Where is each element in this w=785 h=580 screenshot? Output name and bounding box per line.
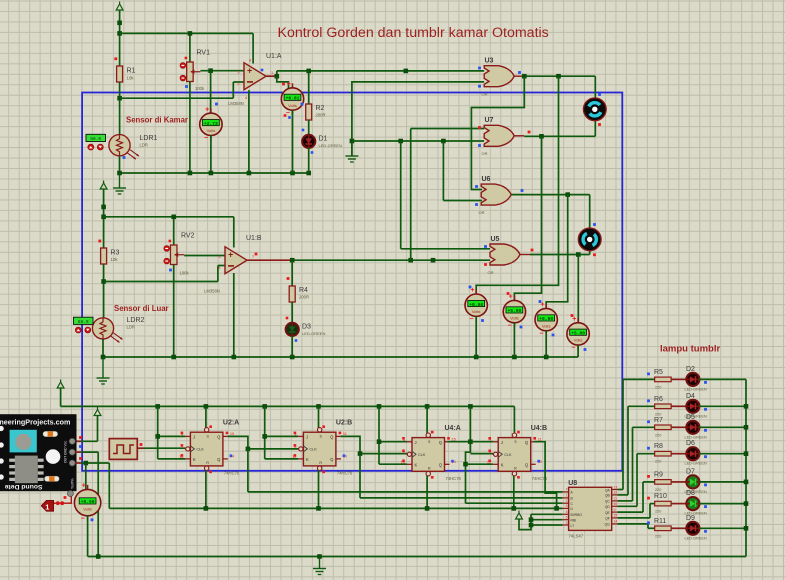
wire VM4 minus to rail <box>513 323 515 357</box>
wire U1:B output up to U7 input <box>410 129 412 261</box>
svg-text:3: 3 <box>566 521 568 525</box>
svg-text:220: 220 <box>655 385 661 389</box>
wire U4:A set pin <box>426 406 428 433</box>
wire R2 to D1 <box>308 120 310 135</box>
wire U3 output down to U6 upper input <box>471 76 524 189</box>
svg-text:4: 4 <box>566 510 568 514</box>
svg-text:LED-GREEN: LED-GREEN <box>685 387 707 391</box>
svg-text:7: 7 <box>252 255 254 259</box>
flip-flop U4:B <box>498 438 531 472</box>
wire RV1 top to rail <box>189 33 191 62</box>
resistor R11 220 <box>655 526 672 531</box>
svg-text:220: 220 <box>655 433 661 437</box>
svg-text:220: 220 <box>655 488 661 492</box>
wire VM2 minus to ground rail <box>292 110 294 173</box>
wire U8 output to R10 <box>618 517 651 519</box>
svg-text:1: 1 <box>45 502 49 511</box>
svg-text:J: J <box>193 435 195 440</box>
wire R9 to D7 <box>671 481 686 483</box>
wire R4 to D3 <box>291 302 293 323</box>
wire test flag to board TestPin (red) <box>54 497 71 504</box>
node U5 output junction <box>576 252 581 257</box>
svg-text:Volts: Volts <box>288 103 297 108</box>
svg-text:D1: D1 <box>319 136 328 143</box>
resistor R6 220 <box>655 404 672 409</box>
svg-text:200R: 200R <box>316 113 326 118</box>
power +V sensor 2 <box>100 183 107 189</box>
wire U5 output to voltmeter VM6 <box>577 255 579 323</box>
svg-text:9: 9 <box>614 508 616 512</box>
svg-text:Volts: Volts <box>510 315 519 320</box>
svg-text:1: 1 <box>271 71 273 75</box>
svg-text:11: 11 <box>538 436 542 441</box>
svg-text:+2.73: +2.73 <box>204 121 218 127</box>
voltmeter VM7 sound output <box>87 485 89 490</box>
wire U8 output to R8 <box>618 505 638 507</box>
node wiper branch to voltmeter <box>208 68 213 73</box>
svg-text:−: − <box>81 515 85 522</box>
resistor R5 220 <box>655 377 672 382</box>
svg-text:QD: QD <box>605 505 611 509</box>
resistor R8 220 <box>655 451 672 456</box>
svg-text:11: 11 <box>343 431 347 436</box>
wire R1 bottom to LDR1 <box>119 82 121 135</box>
svg-text:2: 2 <box>566 499 568 503</box>
svg-text:14: 14 <box>614 520 618 524</box>
wire U2:A Q to U2:B CLK and U8 A <box>228 436 299 449</box>
wire bottom ground rail <box>88 556 746 558</box>
svg-text:D4: D4 <box>686 393 695 400</box>
wire U8 output to R6 <box>618 494 629 496</box>
op-amp U1:A <box>244 63 266 90</box>
svg-text:CLK: CLK <box>196 448 204 452</box>
wire U4:B CLK feed <box>470 453 493 455</box>
voltmeter VM2 op-amp output <box>292 83 294 88</box>
svg-text:D2: D2 <box>686 366 695 373</box>
wire ground rail 3 <box>103 356 578 358</box>
wire D9 to cathode rail <box>699 527 746 529</box>
node bottom rail junction <box>96 554 101 559</box>
svg-text:220: 220 <box>655 534 661 538</box>
potentiometer RV2 100k <box>170 245 177 265</box>
svg-text:U4:B: U4:B <box>531 425 547 432</box>
node top column junction <box>117 21 122 26</box>
svg-text:U4:A: U4:A <box>445 425 461 432</box>
wire down to U8 input C <box>466 502 563 504</box>
svg-text:LED-GREEN: LED-GREEN <box>319 143 342 148</box>
svg-text:15: 15 <box>614 514 618 518</box>
node divider tap 2 <box>101 279 106 284</box>
wire J/K feed U2:A <box>157 406 159 459</box>
svg-text:−: − <box>508 322 512 329</box>
test flag 1 <box>41 500 53 511</box>
svg-text:D8: D8 <box>686 490 695 497</box>
wire down to U8 input A <box>247 449 249 492</box>
svg-text:LM358N: LM358N <box>204 289 220 294</box>
wire down to U8 input B <box>359 454 361 498</box>
wire U3 output to motor1 top <box>524 75 595 77</box>
flip-flop U2:B <box>303 432 336 466</box>
wire to R2 <box>308 71 310 104</box>
svg-text:QC: QC <box>605 500 611 504</box>
LED D9 <box>686 522 699 535</box>
svg-text:OR: OR <box>488 270 494 275</box>
svg-text:4: 4 <box>245 96 247 100</box>
svg-text:U1:B: U1:B <box>246 235 262 242</box>
node stray junction on U3 input line <box>404 69 409 74</box>
wire top supply rail to U1:A V+ <box>120 32 254 34</box>
svg-text:200R: 200R <box>299 295 309 300</box>
wire D5 to cathode rail <box>699 426 746 428</box>
sound detector board <box>0 414 77 491</box>
svg-text:K: K <box>306 457 309 462</box>
voltmeter VM1 divider kamar <box>210 109 212 114</box>
wire R6 to D4 <box>671 405 686 407</box>
svg-text:7: 7 <box>566 488 568 492</box>
node U6 output junction <box>565 192 570 197</box>
wire D7 to cathode rail <box>699 481 746 483</box>
voltmeter VM5 U6 output <box>545 304 547 309</box>
svg-text:LED-GREEN: LED-GREEN <box>685 435 707 439</box>
wire U2:B reset pin to reset rail <box>318 470 320 508</box>
wire VM1 minus to ground rail <box>210 136 212 174</box>
OR gate U6 <box>481 184 511 205</box>
svg-text:220: 220 <box>655 460 661 464</box>
wire ground net to U3 lower input <box>352 82 484 156</box>
wire U6 output to voltmeter VM5 <box>546 195 568 309</box>
pulse generator clock source <box>109 439 137 460</box>
wire +V to R3 <box>103 189 105 248</box>
svg-text:CLK: CLK <box>504 453 512 457</box>
svg-text:U8: U8 <box>568 480 577 487</box>
svg-text:R11: R11 <box>654 518 666 525</box>
voltmeter VM3 U3 output <box>475 290 477 295</box>
svg-text:CLK: CLK <box>418 453 426 457</box>
wire +V to R1 <box>119 10 121 66</box>
LED D4 <box>686 400 699 413</box>
svg-text:11: 11 <box>614 497 618 501</box>
svg-text:D5: D5 <box>686 414 695 421</box>
wire ground net to U7 lower input <box>352 140 484 142</box>
svg-text:+: + <box>247 66 252 76</box>
svg-text:lampu tumblr: lampu tumblr <box>660 344 720 355</box>
svg-text:D7: D7 <box>686 468 695 475</box>
node J feed U4:A <box>377 439 382 444</box>
node U4:B K feed <box>463 462 468 467</box>
svg-text:TestPin: TestPin <box>71 478 75 489</box>
wire rail4 end to U4:B set pin <box>513 406 515 432</box>
LED D5 <box>686 421 699 434</box>
wire board GND pin to bottom rail <box>75 451 81 453</box>
svg-text:J: J <box>415 440 417 445</box>
wire LED cathode rail <box>745 379 747 556</box>
svg-text:+: + <box>205 106 209 113</box>
wire ground rail sensor1 <box>120 172 309 174</box>
svg-text:220: 220 <box>655 412 661 416</box>
svg-text:+: + <box>287 81 291 88</box>
svg-text:LM358N: LM358N <box>228 101 244 106</box>
svg-text:U5: U5 <box>491 236 500 243</box>
wire U1:A output <box>266 75 277 77</box>
svg-text:R: R <box>514 466 517 470</box>
svg-text:R: R <box>206 461 209 465</box>
svg-text:R10: R10 <box>654 493 667 500</box>
OR gate U7 <box>484 125 514 146</box>
wire R11 to D9 <box>671 527 686 529</box>
node reset rail junctions <box>204 506 209 511</box>
svg-text:+: + <box>572 316 576 323</box>
svg-text:74HC76: 74HC76 <box>224 470 240 475</box>
svg-text:R5: R5 <box>654 369 663 376</box>
wire U8 output to R7 <box>618 500 633 502</box>
svg-text:74HC76: 74HC76 <box>337 470 353 475</box>
svg-text:LT: LT <box>571 524 575 528</box>
svg-text:OR: OR <box>482 151 488 156</box>
wire VM7 minus to bottom rail <box>87 515 89 556</box>
wire U2:A set pin <box>205 406 207 428</box>
svg-text:LED-GREEN: LED-GREEN <box>302 331 325 336</box>
voltmeter VM6 U5 output <box>577 318 579 323</box>
svg-text:LED-GREEN: LED-GREEN <box>685 536 707 540</box>
wire U4:A reset pin to reset rail <box>426 476 428 509</box>
node U1:B output junctions <box>290 258 295 263</box>
svg-text:Volts: Volts <box>83 506 92 511</box>
svg-text:Sound Dete: Sound Dete <box>5 483 43 490</box>
svg-text:74HC76: 74HC76 <box>446 476 462 481</box>
LDR2 light sensor <box>92 318 113 339</box>
wire R4 branch <box>291 260 293 286</box>
svg-text:R6: R6 <box>654 396 663 403</box>
node RV1 top rail junction <box>188 31 193 36</box>
wire VM6 minus to rail end <box>577 345 579 357</box>
svg-text:3: 3 <box>237 71 239 75</box>
node divider tap 1 <box>117 96 122 101</box>
power +V U8 control pins <box>516 513 523 519</box>
svg-text:RV2: RV2 <box>181 233 195 240</box>
wire blue frame rectangle <box>82 93 622 471</box>
node U4:A Q junction <box>468 439 473 444</box>
svg-text:TheEngineeringProjects.com: TheEngineeringProjects.com <box>0 418 70 427</box>
wire J/K feed U2:B <box>264 406 266 459</box>
resistor R4 200R <box>289 286 295 302</box>
resistor R9 220 <box>655 480 672 485</box>
LED D7 <box>686 475 699 488</box>
svg-text:15: 15 <box>452 436 456 441</box>
svg-text:R8: R8 <box>654 443 663 450</box>
svg-text:LDR2: LDR2 <box>127 317 145 324</box>
wire LDR2 bottom to ground rail 3 <box>102 339 104 357</box>
svg-text:+5.00: +5.00 <box>571 331 585 337</box>
wire U8 output to R11 <box>618 523 649 525</box>
svg-text:OUT GND Vcc: OUT GND Vcc <box>64 441 68 463</box>
wire rail4 supply <box>61 405 515 407</box>
wire D6 to cathode rail <box>699 453 746 455</box>
ground symbol sensor2 <box>102 357 104 378</box>
wire U8 output to R5 <box>618 489 624 491</box>
svg-text:88.0: 88.0 <box>78 319 89 325</box>
svg-text:U3: U3 <box>485 58 494 65</box>
svg-text:−: − <box>204 135 208 142</box>
wire LDR1 bottom to ground rail <box>119 156 121 173</box>
svg-text:Volts: Volts <box>207 128 216 133</box>
node J feed U2:A <box>155 434 160 439</box>
wire J/K feed U4:A <box>378 406 380 464</box>
LED D6 <box>686 447 699 460</box>
wire U8 output to R9 <box>618 511 644 513</box>
wire U1:A output to voltmeter VM2 <box>277 76 289 88</box>
ground symbol bottom <box>319 557 321 569</box>
svg-text:8: 8 <box>249 59 251 63</box>
wire U1:B output line <box>247 259 292 261</box>
svg-text:5: 5 <box>218 255 220 259</box>
svg-text:100k: 100k <box>180 271 190 276</box>
svg-text:R2: R2 <box>316 105 325 112</box>
node ground rail junctions <box>117 171 122 176</box>
ground symbol sensor1 <box>119 174 121 188</box>
svg-text:R: R <box>428 466 431 470</box>
wire D2 to cathode rail <box>699 378 746 380</box>
svg-text:QA: QA <box>605 488 611 492</box>
wire RV1 wiper to non-inverting input <box>200 70 244 72</box>
power +V flip-flop rail <box>57 382 64 388</box>
wire R8 to D6 <box>671 453 686 455</box>
node U8 control junctions <box>529 517 534 522</box>
svg-text:LDR: LDR <box>127 325 135 330</box>
op-amp U1:B <box>225 247 247 274</box>
svg-text:OR: OR <box>482 92 488 97</box>
svg-text:K: K <box>415 463 418 468</box>
wire R7 to D5 <box>671 426 686 428</box>
svg-text:D6: D6 <box>686 440 695 447</box>
svg-text:Volts: Volts <box>542 323 551 328</box>
wire U5 output to motor2 bottom <box>530 254 590 256</box>
svg-text:U7: U7 <box>485 117 494 124</box>
node ground net junction <box>350 139 355 144</box>
wire RV2 top to rail2 <box>173 217 175 245</box>
LED D8 <box>686 497 699 510</box>
svg-text:QG: QG <box>605 523 611 527</box>
voltmeter VM4 U7 output <box>513 296 515 301</box>
wire supply rail 2 to U1:B V+ <box>104 216 234 218</box>
LED D1 <box>302 135 315 148</box>
flip-flop U2:A <box>190 432 223 466</box>
wire OUT to voltmeter VM7 <box>85 463 87 490</box>
wire U2:B set pin <box>318 406 320 428</box>
svg-text:R: R <box>319 461 322 465</box>
svg-text:D9: D9 <box>686 515 695 522</box>
wire tap2 to inverting input U1:B <box>104 281 218 283</box>
wire D8 to cathode rail <box>699 503 746 505</box>
svg-text:12: 12 <box>614 491 618 495</box>
svg-text:CLK: CLK <box>309 448 317 452</box>
svg-text:+5.00: +5.00 <box>508 308 522 314</box>
wire U2:A reset pin to reset rail <box>205 470 207 508</box>
svg-text:R3: R3 <box>111 250 120 257</box>
node OUT pin junction <box>84 461 89 466</box>
wire VM3 minus to rail <box>475 316 477 357</box>
svg-text:K: K <box>193 457 196 462</box>
svg-text:U2:B: U2:B <box>336 420 352 427</box>
wire U3 output to voltmeter VM3 <box>476 76 558 294</box>
wire J/K feed U4:B from rail <box>469 406 471 441</box>
wire D4 to cathode rail <box>699 405 746 407</box>
svg-text:QF: QF <box>605 517 610 521</box>
svg-text:R4: R4 <box>299 287 308 294</box>
svg-text:15: 15 <box>230 431 234 436</box>
svg-text:U2:A: U2:A <box>223 420 239 427</box>
node U1:A output junction <box>275 74 280 79</box>
power +V sound board <box>94 410 101 416</box>
svg-text:Sensor di Kamar: Sensor di Kamar <box>126 115 188 124</box>
svg-text:+0.00: +0.00 <box>469 302 483 308</box>
wire D3 to ground rail 3 <box>291 336 293 357</box>
svg-text:+: + <box>82 483 86 490</box>
svg-text:R1: R1 <box>127 68 136 75</box>
node rail4 junctions <box>155 404 160 409</box>
node R2 top junction <box>306 69 311 74</box>
svg-text:6: 6 <box>566 504 568 508</box>
node U2:B Q junction <box>358 451 363 456</box>
svg-text:OR: OR <box>479 210 485 215</box>
svg-text:RV1: RV1 <box>197 50 211 57</box>
wire R3 bottom to LDR2 <box>103 264 105 318</box>
motor 2 gorden <box>578 228 601 251</box>
svg-text:6: 6 <box>218 266 220 270</box>
wire D1 to ground rail <box>308 148 310 173</box>
resistor R7 220 <box>655 425 672 430</box>
LDR1 light sensor <box>109 135 130 156</box>
wire R5 to D2 <box>671 378 686 380</box>
svg-text:BI/RBO: BI/RBO <box>571 513 583 517</box>
node U3 output junctions <box>522 74 527 79</box>
svg-text:+0.01: +0.01 <box>286 96 300 102</box>
svg-text:LDR1: LDR1 <box>140 135 158 142</box>
node U7 output junction <box>539 134 544 139</box>
svg-text:U6: U6 <box>482 176 491 183</box>
svg-text:Volts: Volts <box>574 338 583 343</box>
node ground rail 3 junctions <box>101 355 106 360</box>
ground symbol gate net <box>351 141 353 156</box>
svg-text:+0.00: +0.00 <box>539 316 553 322</box>
wire feed to U5 upper input <box>400 141 402 249</box>
wire feed to U6 lower input <box>442 141 444 201</box>
svg-text:Volts: Volts <box>472 309 481 314</box>
wire RV2 wiper to non-inverting input <box>184 255 225 257</box>
node supply2 junctions <box>101 205 106 210</box>
node cathode rail junctions <box>744 404 749 409</box>
wire RV1 bottom to ground rail <box>189 82 191 174</box>
wire U1:B V- to ground rail 3 <box>233 273 235 357</box>
svg-text:LED-GREEN: LED-GREEN <box>685 462 707 466</box>
motor 1 gorden <box>583 98 606 121</box>
svg-text:−: − <box>539 330 543 337</box>
svg-text:+: + <box>228 250 233 260</box>
svg-text:10: 10 <box>614 502 618 506</box>
OR gate U5 <box>490 244 520 265</box>
wire board OUT pin net <box>75 462 81 464</box>
LDR2 brightness control widget <box>74 317 94 324</box>
wire tap1 to inverting input <box>120 97 234 99</box>
svg-text:K: K <box>501 463 504 468</box>
wire reset rail / U8 input D <box>109 507 562 509</box>
svg-text:10k: 10k <box>127 76 135 81</box>
svg-text:RBI: RBI <box>571 519 577 523</box>
svg-text:−: − <box>286 110 290 117</box>
LDR1 brightness control widget <box>86 134 106 141</box>
LED D2 <box>686 373 699 386</box>
svg-text:5: 5 <box>566 516 568 520</box>
svg-text:100k: 100k <box>195 86 205 91</box>
